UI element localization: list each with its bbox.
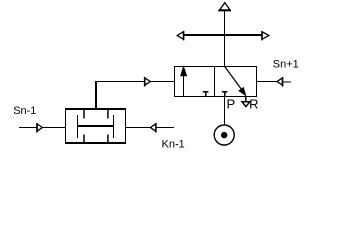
svg-text:R: R: [249, 96, 258, 111]
two-pressure valve seat tick bottom-left: [83, 135, 85, 143]
wire: Kn-1 input line right side: [126, 127, 150, 129]
two-pressure valve inner left bar: [77, 115, 79, 138]
wire: horizontal output branch line: [184, 34, 262, 36]
air supply source: circle: [214, 125, 234, 145]
two-pressure valve K1: left edge: [65, 108, 67, 144]
two-pressure valve seat tick bottom-right: [107, 135, 109, 143]
wire: vertical output line from valve top to up arrow: [224, 11, 226, 67]
connection arrow Kn-1 (points left into valve): [150, 123, 174, 133]
connection arrow on pilot line: [145, 77, 151, 87]
wire: Sn-1 input line: [19, 127, 66, 129]
valve V1 divider between positions: [214, 67, 216, 97]
air supply source: centre dot: [221, 132, 227, 138]
connection arrow Sn+1 (points left into valve): [277, 77, 291, 87]
connection arrow left (output branch): [177, 31, 183, 40]
wire: pilot line from shuttle valve to valve left side: [95, 81, 175, 83]
left position flow arrow (P to A): [181, 67, 187, 96]
two-pressure valve seat tick top-right: [107, 110, 109, 119]
two-pressure valve inner right bar: [113, 115, 115, 138]
left position blocked port T: [203, 92, 209, 96]
connection arrow right (output branch): [262, 31, 269, 40]
svg-text:Sn+1: Sn+1: [273, 58, 299, 70]
svg-text:Sn-1: Sn-1: [13, 105, 36, 117]
right position blocked port T (P blocked): [222, 92, 228, 96]
valve V1: 3/2-way valve body: [175, 67, 257, 97]
wire: right pilot stub of valve: [257, 81, 278, 83]
svg-text:Kn-1: Kn-1: [162, 138, 185, 150]
exhaust port R symbol (stem + hollow triangle): [242, 96, 250, 107]
right position diagonal flow arrow (A to R): [225, 67, 246, 96]
connection arrow Sn-1 (points right into valve): [37, 123, 42, 133]
two-pressure valve middle connecting bar: [77, 125, 114, 127]
svg-text:P: P: [227, 96, 236, 111]
wire: P supply line down to air source: [224, 97, 226, 126]
two-pressure valve K1: right edge: [125, 108, 127, 144]
two-pressure valve seat tick top-left: [83, 110, 85, 119]
two-pressure valve K1: bottom edge: [65, 142, 126, 144]
connection arrow up (top output port): [218, 3, 231, 11]
two-pressure valve K1: top edge: [65, 108, 126, 110]
wire: vertical pilot line down to shuttle valve: [95, 81, 97, 109]
